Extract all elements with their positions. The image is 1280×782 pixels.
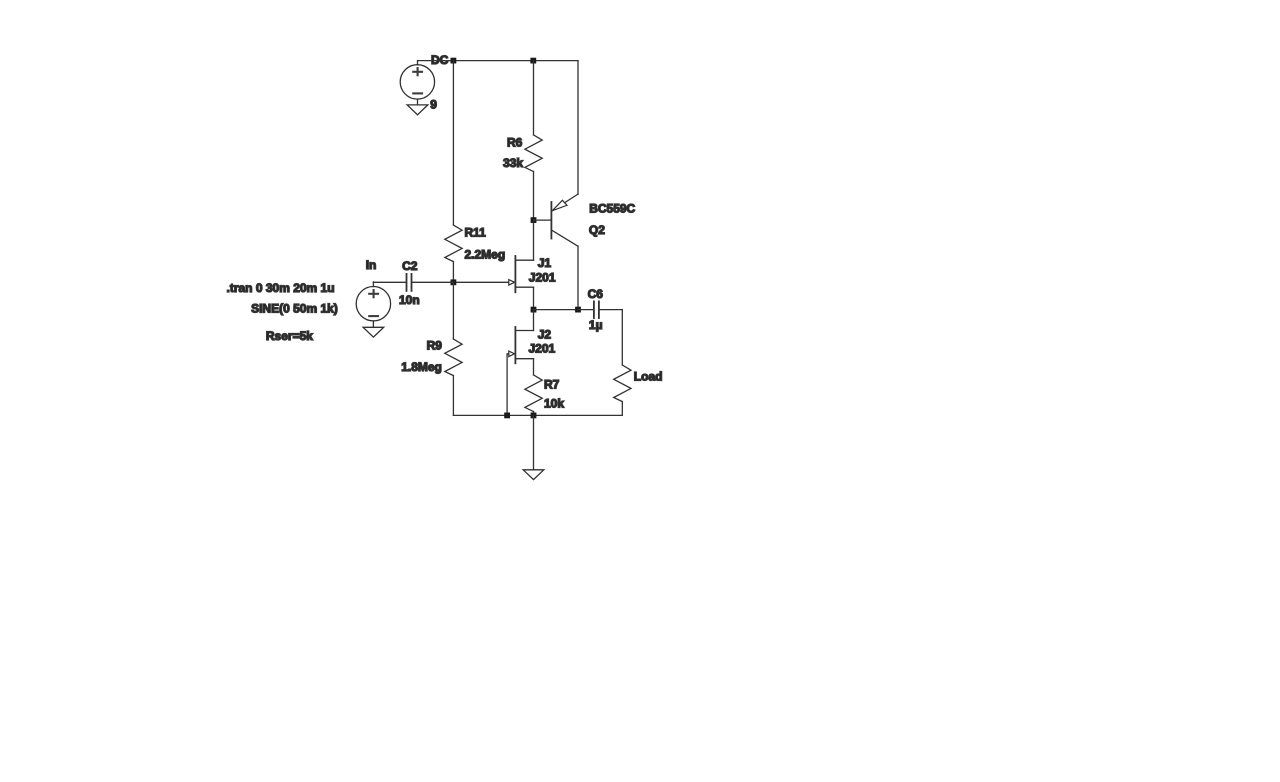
svg-text:C2: C2 <box>402 259 418 273</box>
svg-text:R6: R6 <box>507 136 523 150</box>
resistor R9 <box>445 339 462 376</box>
wire R6 column (rail to R6) <box>533 61 535 135</box>
ground (below V1) <box>407 105 428 115</box>
svg-text:.tran 0 30m 20m 1u: .tran 0 30m 20m 1u <box>227 281 335 295</box>
resistor R6 <box>525 135 542 172</box>
svg-text:J201: J201 <box>529 271 556 285</box>
voltage source V1 DC 9V <box>400 61 434 105</box>
ground (main) <box>523 470 544 480</box>
ground (below V2) <box>363 327 384 337</box>
node junction output node right <box>575 307 581 313</box>
svg-text:R7: R7 <box>544 377 560 391</box>
voltage source V2 SINE <box>356 282 390 327</box>
svg-text:2.2Meg: 2.2Meg <box>465 247 506 261</box>
resistor R7 <box>525 375 542 412</box>
wire R9 to bottom rail <box>452 376 454 416</box>
svg-text:R11: R11 <box>465 226 487 240</box>
svg-text:SINE(0 50m 1k): SINE(0 50m 1k) <box>251 301 338 315</box>
wire bottom rail <box>453 414 622 416</box>
node junction gate-rail <box>504 413 510 419</box>
node junction output node left <box>531 307 537 313</box>
svg-text:9: 9 <box>430 97 437 111</box>
wire left column top (rail to R11) <box>452 61 454 225</box>
node junction base of Q2 <box>531 217 537 223</box>
node junction at 453,60 <box>451 58 457 64</box>
JFET J1 J201 <box>509 256 534 310</box>
svg-text:Q2: Q2 <box>589 223 605 237</box>
wire drain J1 up to base node <box>533 220 535 260</box>
wire top supply rail <box>418 60 578 62</box>
capacitor C2 10n <box>407 274 412 291</box>
svg-text:Rser=5k: Rser=5k <box>266 329 313 343</box>
svg-text:DC: DC <box>431 53 449 67</box>
wire In node to C2 <box>373 281 406 283</box>
wire C6 down to Load <box>621 310 623 365</box>
svg-text:J2: J2 <box>538 328 552 342</box>
svg-text:BC559C: BC559C <box>589 202 635 216</box>
wire R6 bottom to base node <box>533 172 535 221</box>
capacitor C6 1u <box>578 301 622 318</box>
svg-text:1µ: 1µ <box>589 318 603 332</box>
wire C2 to input node <box>412 281 454 283</box>
wire rail down to ground <box>533 415 535 469</box>
wire R7 to bottom rail <box>533 412 535 416</box>
wire R11 bottom to input node <box>452 262 454 283</box>
wire input node down to R9 <box>452 282 454 339</box>
wire Load to bottom rail <box>621 402 623 416</box>
svg-text:C6: C6 <box>588 287 604 301</box>
svg-text:J201: J201 <box>529 342 556 356</box>
svg-text:In: In <box>366 258 377 272</box>
svg-text:10k: 10k <box>544 397 564 411</box>
node junction input node <box>451 279 457 285</box>
resistor Load <box>614 365 631 402</box>
wire gate J1 from input node <box>453 281 508 283</box>
node junction R7-rail <box>531 413 537 419</box>
transistor Q2 BC559C (PNP) <box>534 61 579 310</box>
svg-text:J1: J1 <box>538 256 552 270</box>
wire output node <box>534 309 579 311</box>
wire gate J2 down to bottom rail <box>507 354 509 416</box>
svg-text:R9: R9 <box>427 338 443 352</box>
svg-text:1.8Meg: 1.8Meg <box>401 360 442 374</box>
JFET J2 J201 <box>509 310 534 375</box>
svg-text:33k: 33k <box>503 156 523 170</box>
resistor R11 <box>445 225 462 262</box>
svg-text:10n: 10n <box>399 293 420 307</box>
svg-text:Load: Load <box>634 369 663 383</box>
node junction at 533,60 <box>530 58 536 64</box>
